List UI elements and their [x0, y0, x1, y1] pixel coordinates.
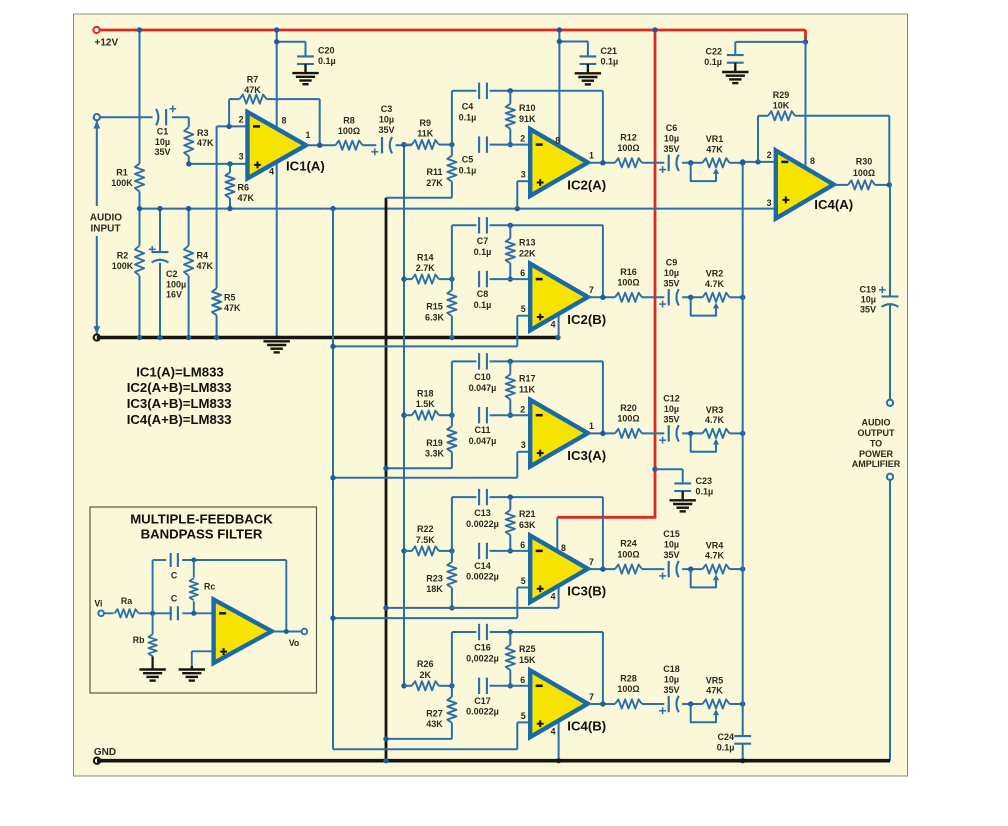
svg-text:VR1: VR1 [706, 134, 724, 144]
wire: R24 to C15 [642, 568, 664, 570]
ground for non-inverting input [191, 666, 193, 670]
wire: C7 to feedback corner [490, 224, 603, 226]
terminal audio input top [94, 114, 100, 120]
svg-text:R28: R28 [620, 674, 637, 684]
svg-text:100K: 100K [112, 261, 134, 271]
svg-text:4: 4 [551, 320, 556, 330]
svg-text:100Ω: 100Ω [617, 278, 639, 288]
resistor R10 [509, 91, 511, 104]
wire: C5 node to inverting input [490, 144, 531, 146]
wire: pin 8 from red feed IC3(B) [556, 517, 558, 552]
resistor R21 [509, 497, 511, 510]
resistor R19 [451, 415, 453, 426]
svg-text:4.7K: 4.7K [705, 415, 725, 425]
svg-text:C16: C16 [474, 643, 491, 653]
svg-text:C18: C18 [663, 664, 680, 674]
svg-text:R25: R25 [519, 644, 536, 654]
svg-text:C11: C11 [474, 425, 490, 435]
svg-text:0.1µ: 0.1µ [459, 165, 477, 175]
wire: C9 to VR2 [682, 296, 702, 298]
wire: C11 node to inverting input [490, 414, 531, 416]
wire: half-supply bias rail [140, 208, 776, 210]
svg-text:3: 3 [521, 440, 526, 450]
wire: VR5 to summing bus [730, 703, 743, 705]
wire: output row IC2(A) [588, 162, 615, 164]
wire: C12 to VR3 [682, 432, 702, 434]
svg-text:C1: C1 [157, 127, 169, 137]
svg-text:47K: 47K [706, 686, 723, 696]
wire: IC1 pin 3 input [189, 163, 248, 165]
svg-text:AUDIO: AUDIO [90, 213, 122, 224]
svg-text:100Ω: 100Ω [617, 549, 639, 559]
svg-text:R18: R18 [417, 389, 434, 399]
wire: +12V rail (red) [97, 29, 806, 32]
wire: node up to top row [451, 91, 453, 145]
wire: pin 4 to bottom bus IC4(B) [558, 720, 560, 761]
wire: C16 to feedback corner [490, 631, 603, 633]
svg-text:IC2(A+B)=LM833: IC2(A+B)=LM833 [127, 380, 232, 395]
wire: summing bus vertical [742, 162, 744, 736]
svg-text:5: 5 [521, 576, 526, 586]
wire: feedback down to output [602, 361, 604, 433]
wire: Ra to node A [139, 612, 173, 614]
svg-text:C23: C23 [696, 476, 713, 486]
svg-text:Ra: Ra [121, 596, 132, 606]
wire: VR3 to summing bus [730, 432, 743, 434]
wire: C1 to R3 [172, 116, 189, 118]
svg-text:C6: C6 [666, 123, 678, 133]
wire: IC1 pin 8 supply drop [276, 30, 278, 130]
svg-text:0.1µ: 0.1µ [601, 56, 619, 66]
resistor R11 [451, 145, 453, 156]
svg-text:35V: 35V [663, 685, 679, 695]
svg-text:0.1µ: 0.1µ [459, 113, 477, 123]
svg-text:4: 4 [551, 726, 556, 736]
resistor R22 [412, 546, 439, 555]
svg-text:16V: 16V [166, 290, 182, 300]
capacitor C19 [882, 295, 899, 297]
resistor R4 [188, 209, 190, 246]
svg-text:AMPLIFIER: AMPLIFIER [852, 459, 901, 469]
node IC3(B) input [401, 548, 406, 553]
svg-text:10K: 10K [773, 101, 790, 111]
svg-text:C4: C4 [462, 102, 474, 112]
svg-text:R23: R23 [426, 574, 443, 584]
svg-text:5: 5 [521, 304, 526, 314]
op-amp IC2(A) [530, 129, 588, 196]
svg-text:1: 1 [589, 421, 594, 431]
svg-text:6: 6 [520, 268, 525, 278]
svg-text:10µ: 10µ [664, 540, 679, 550]
wire: Vi to Ra [104, 612, 114, 614]
svg-text:Vi: Vi [94, 598, 102, 608]
resistor R23 [451, 551, 453, 562]
wire: IC1 pin 2 input [217, 125, 248, 127]
wire: C23 tee from red vertical [652, 467, 657, 472]
wire: output row IC2(B) [588, 296, 615, 298]
svg-text:0.0022µ: 0.0022µ [466, 519, 499, 529]
svg-text:1.5K: 1.5K [416, 399, 436, 409]
wire: red drop to IC4(A) pin-8 node [804, 30, 807, 42]
svg-text:4.7K: 4.7K [705, 279, 725, 289]
svg-text:15K: 15K [519, 655, 536, 665]
wire: IC4(A) pin 8 drop [805, 42, 807, 168]
wire: non-inverting input stub IC2(B) [517, 315, 530, 317]
node IC2(B) input [401, 276, 406, 281]
op-amp IC4(A) [776, 151, 834, 219]
svg-text:Rb: Rb [133, 635, 145, 645]
wire: upper ground bus (black) [97, 336, 559, 340]
wire: R20 to C12 [642, 432, 664, 434]
svg-text:7.5K: 7.5K [416, 535, 436, 545]
svg-text:OUTPUT: OUTPUT [858, 428, 896, 438]
wire: R14 to node [439, 278, 452, 280]
resistor R12 [615, 158, 642, 167]
svg-text:R27: R27 [426, 708, 443, 718]
wire: output return to ground bus [889, 480, 891, 761]
svg-text:Vo: Vo [289, 638, 300, 648]
potentiometer VR5 [703, 699, 730, 708]
junction dots on bottom bus [383, 758, 388, 763]
wire: R7 feedback branch up [228, 99, 230, 126]
ground symbol on upper bus [264, 340, 290, 342]
svg-text:6: 6 [520, 540, 525, 550]
svg-text:10µ: 10µ [379, 114, 394, 124]
svg-text:35V: 35V [378, 125, 394, 135]
svg-text:11K: 11K [519, 384, 536, 394]
svg-text:R3: R3 [197, 128, 209, 138]
wire: output row IC3(A) [588, 432, 615, 434]
terminal Vo [302, 629, 308, 635]
svg-text:R12: R12 [620, 132, 637, 142]
wire: R3 to pin3 node [188, 156, 190, 164]
svg-text:AUDIO: AUDIO [862, 418, 891, 428]
wire: C22 tee [735, 41, 805, 43]
svg-text:R8: R8 [343, 115, 355, 125]
resistor R3 [184, 127, 193, 156]
svg-text:C20: C20 [318, 46, 335, 56]
svg-text:IC3(A+B)=LM833: IC3(A+B)=LM833 [127, 396, 232, 411]
svg-text:100Ω: 100Ω [338, 126, 360, 136]
ground for C23 [682, 491, 684, 500]
resistor Rb [152, 613, 154, 634]
wire: non-inverting input stub IC2(A) [517, 180, 530, 182]
svg-text:INPUT: INPUT [91, 224, 121, 235]
wire: R19 to ground vertical [451, 452, 453, 468]
svg-text:C3: C3 [381, 104, 393, 114]
wire: C10 to feedback corner [490, 360, 603, 362]
wire: pin 4 to upper ground bus IC2(B) [558, 313, 560, 337]
capacitor C21 [580, 55, 597, 57]
svg-text:R1: R1 [116, 168, 128, 178]
svg-text:IC1(A)=LM833: IC1(A)=LM833 [136, 364, 224, 379]
svg-text:BANDPASS FILTER: BANDPASS FILTER [141, 526, 263, 541]
svg-text:100µ: 100µ [166, 279, 186, 289]
svg-text:6: 6 [520, 675, 525, 685]
wire: R18 to node [439, 414, 452, 416]
capacitor C20 [297, 55, 314, 57]
wire: inset output [272, 631, 302, 633]
junction dots on upper ground bus [137, 335, 142, 340]
svg-text:0.1µ: 0.1µ [474, 300, 492, 310]
capacitor C11 [478, 407, 480, 423]
capacitor C18 [668, 696, 670, 712]
op-amp IC1(A) [248, 112, 307, 178]
svg-text:5: 5 [521, 711, 526, 721]
capacitor C5 [478, 136, 480, 152]
wire: C15 to VR4 [682, 568, 702, 570]
wire: non-inverting input stub IC4(B) [517, 721, 530, 723]
wire: node up to top row [451, 225, 453, 279]
resistor R15 [451, 279, 453, 290]
capacitor C16 [478, 624, 480, 640]
terminal audio output bottom [887, 474, 893, 480]
svg-text:1: 1 [306, 130, 311, 140]
svg-text:100K: 100K [111, 178, 133, 188]
wire: non-inverting input stub IC3(A) [517, 451, 530, 453]
svg-text:100Ω: 100Ω [617, 143, 639, 153]
svg-text:R19: R19 [426, 438, 443, 448]
svg-text:VR5: VR5 [706, 675, 724, 685]
svg-text:C: C [171, 593, 178, 603]
resistor R30 [848, 180, 875, 189]
svg-text:10µ: 10µ [664, 133, 679, 143]
resistor R17 [509, 361, 511, 374]
svg-text:2: 2 [520, 404, 525, 414]
capacitor C6 [668, 155, 670, 171]
svg-text:IC4(A+B)=LM833: IC4(A+B)=LM833 [127, 412, 232, 427]
wire: IC1 pin 4 to ground bus [276, 162, 278, 338]
capacitor C (input) [170, 606, 172, 620]
svg-text:18K: 18K [426, 584, 443, 594]
capacitor C13 [478, 489, 480, 505]
capacitor C3 [381, 137, 383, 153]
resistor R2 [139, 209, 141, 246]
svg-text:3: 3 [239, 152, 244, 162]
svg-text:R21: R21 [519, 509, 536, 519]
resistor R18 [412, 411, 439, 420]
svg-text:35V: 35V [860, 304, 876, 314]
capacitor C14 [478, 543, 480, 559]
ground for Rb [152, 656, 154, 669]
node A dot [150, 611, 155, 616]
wire: VR4 to summing bus [730, 568, 743, 570]
svg-text:C9: C9 [666, 257, 678, 267]
potentiometer VR1 [703, 158, 730, 167]
svg-text:VR2: VR2 [706, 269, 724, 279]
wire: feedback down to output [602, 497, 604, 569]
op-amp IC2(B) [530, 264, 588, 331]
resistor R14 [412, 275, 439, 284]
wire: C17 node to inverting input [490, 685, 531, 687]
svg-text:8: 8 [810, 156, 815, 166]
svg-text:7: 7 [589, 692, 594, 702]
resistor R29 [768, 111, 795, 120]
terminal Vi [98, 611, 104, 617]
svg-text:47K: 47K [706, 144, 723, 154]
svg-text:POWER: POWER [859, 449, 894, 459]
terminal audio input bottom [94, 334, 100, 340]
wire: C18 to VR5 [682, 703, 702, 705]
wire: output vertical through C19 [889, 185, 891, 297]
svg-text:C10: C10 [474, 372, 491, 382]
wire: R11 to ground vertical [451, 182, 453, 198]
wire: C21 tee [559, 41, 588, 43]
svg-text:C2: C2 [166, 269, 178, 279]
svg-text:C22: C22 [705, 47, 722, 57]
svg-text:0,0022µ: 0,0022µ [466, 654, 499, 664]
wire: R16 to C9 [642, 296, 664, 298]
resistor R24 [615, 565, 642, 574]
capacitor C7 [478, 217, 480, 233]
svg-text:43K: 43K [426, 719, 443, 729]
svg-text:R20: R20 [620, 403, 637, 413]
wire: node A up to top C [152, 560, 154, 613]
svg-text:35V: 35V [663, 550, 679, 560]
junction dots IC1 pin 3 row [186, 161, 191, 166]
resistor R7 [240, 95, 267, 104]
svg-text:0.1µ: 0.1µ [704, 57, 722, 67]
svg-text:IC4(A): IC4(A) [814, 197, 853, 212]
svg-text:10µ: 10µ [664, 268, 679, 278]
label AUDIO INPUT [86, 207, 127, 235]
svg-text:35V: 35V [663, 415, 679, 425]
wire: R29 to output feedback corner [795, 115, 889, 117]
svg-text:7: 7 [589, 557, 594, 567]
ground for C21 [587, 64, 589, 73]
svg-text:63K: 63K [519, 520, 536, 530]
svg-text:VR3: VR3 [706, 405, 724, 415]
resistor R9 [412, 140, 439, 149]
wire: pin2 branch down to R5 [216, 126, 218, 288]
svg-text:3: 3 [767, 198, 772, 208]
svg-text:IC4(B): IC4(B) [567, 719, 606, 734]
wire: output row IC4(B) [588, 703, 615, 705]
svg-text:IC3(B): IC3(B) [567, 584, 606, 599]
wire: red horizontal to IC3(B) pin 8 [557, 516, 656, 519]
svg-text:47K: 47K [197, 261, 214, 271]
svg-text:47K: 47K [197, 138, 214, 148]
svg-text:2: 2 [239, 115, 244, 125]
svg-text:R5: R5 [224, 292, 236, 302]
svg-text:3.3K: 3.3K [425, 449, 445, 459]
op-amp IC4(B) [530, 670, 588, 737]
svg-text:10µ: 10µ [664, 675, 679, 685]
svg-text:R29: R29 [773, 90, 790, 100]
svg-text:7: 7 [589, 285, 594, 295]
wire: red vertical feed for IC2/IC3 pin 8 [654, 30, 657, 517]
junction dot IC1 output [317, 143, 322, 148]
wire: input terminal to C1 [100, 116, 153, 118]
wire: R29 feedback branch [757, 116, 759, 162]
svg-text:8: 8 [282, 115, 287, 125]
node IC3(A) input [401, 413, 406, 418]
capacitor C12 [668, 425, 670, 441]
wire: C14 node to inverting input [490, 550, 531, 552]
resistor R27 [451, 686, 453, 697]
wire: R30 to output node [875, 184, 890, 186]
resistor R1 [135, 164, 144, 192]
svg-text:R17: R17 [519, 373, 536, 383]
wire: R1 to mid-rail [139, 192, 141, 209]
terminal +12V [93, 27, 99, 33]
wire: R12 to C6 [642, 162, 664, 164]
capacitor C10 [478, 353, 480, 369]
wire: C3 to signal node [396, 144, 412, 146]
wire: non-inverting input stub IC3(B) [517, 587, 530, 589]
capacitor C9 [668, 289, 670, 305]
wire: C13 to feedback corner [490, 496, 603, 498]
svg-text:R24: R24 [620, 539, 637, 549]
wire: R22 to node [439, 550, 452, 552]
svg-text:4.7K: 4.7K [705, 551, 725, 561]
wire: bottom ground bus (black) [97, 759, 890, 763]
wire: R28 to C18 [642, 703, 664, 705]
capacitor C23 [674, 482, 691, 484]
svg-text:C24: C24 [717, 732, 734, 742]
resistor R20 [615, 429, 642, 438]
wire: IC4(A) output [834, 184, 848, 186]
terminal GND [94, 758, 100, 764]
wire: R7 to IC1 output [267, 98, 320, 100]
svg-text:11K: 11K [417, 129, 434, 139]
wire: VR2 to summing bus [730, 296, 743, 298]
capacitor C15 [668, 561, 670, 577]
wire: C to inverting input [182, 612, 213, 614]
node IC2(A) input [401, 142, 406, 147]
resistor R8 [336, 141, 363, 150]
wire: signal distribution vertical [403, 145, 405, 686]
wire: bias distribution vertical [332, 209, 334, 750]
node IC4(B) input [401, 683, 406, 688]
svg-text:C: C [171, 570, 178, 580]
resistor R5 [212, 288, 221, 315]
svg-text:R14: R14 [417, 252, 434, 262]
wire: C19 to output terminal [889, 304, 891, 400]
svg-text:R15: R15 [426, 302, 443, 312]
svg-text:0.0022µ: 0.0022µ [466, 572, 499, 582]
wire: vertical +12V feed to R1 [139, 30, 141, 164]
wire: C4 to feedback corner [490, 90, 603, 92]
svg-text:R11: R11 [426, 167, 442, 177]
svg-text:R7: R7 [247, 74, 259, 84]
svg-text:C8: C8 [477, 289, 489, 299]
svg-text:1: 1 [589, 151, 594, 161]
svg-text:TO: TO [870, 438, 882, 448]
svg-text:0.1µ: 0.1µ [717, 743, 735, 753]
svg-text:R30: R30 [856, 157, 873, 167]
svg-text:35V: 35V [154, 147, 170, 157]
capacitor C4 [478, 83, 480, 99]
svg-text:IC3(A): IC3(A) [567, 448, 606, 463]
junction dots on bias rail [137, 206, 142, 211]
wire: audio input port arrows [96, 121, 98, 206]
wire: top C to feedback [182, 559, 286, 561]
svg-text:3: 3 [521, 170, 526, 180]
svg-text:R4: R4 [197, 250, 209, 260]
wire: C6 to VR1 [682, 162, 702, 164]
svg-text:R16: R16 [620, 267, 637, 277]
wire: R23 to pin4 ground row [451, 588, 453, 608]
svg-text:35V: 35V [663, 144, 679, 154]
resistor R13 [509, 225, 511, 238]
wire: node up to top row [451, 361, 453, 415]
resistor R25 [509, 632, 511, 645]
svg-text:C12: C12 [663, 394, 680, 404]
svg-text:R6: R6 [238, 183, 250, 193]
svg-text:C7: C7 [477, 236, 489, 246]
svg-text:27K: 27K [426, 178, 443, 188]
